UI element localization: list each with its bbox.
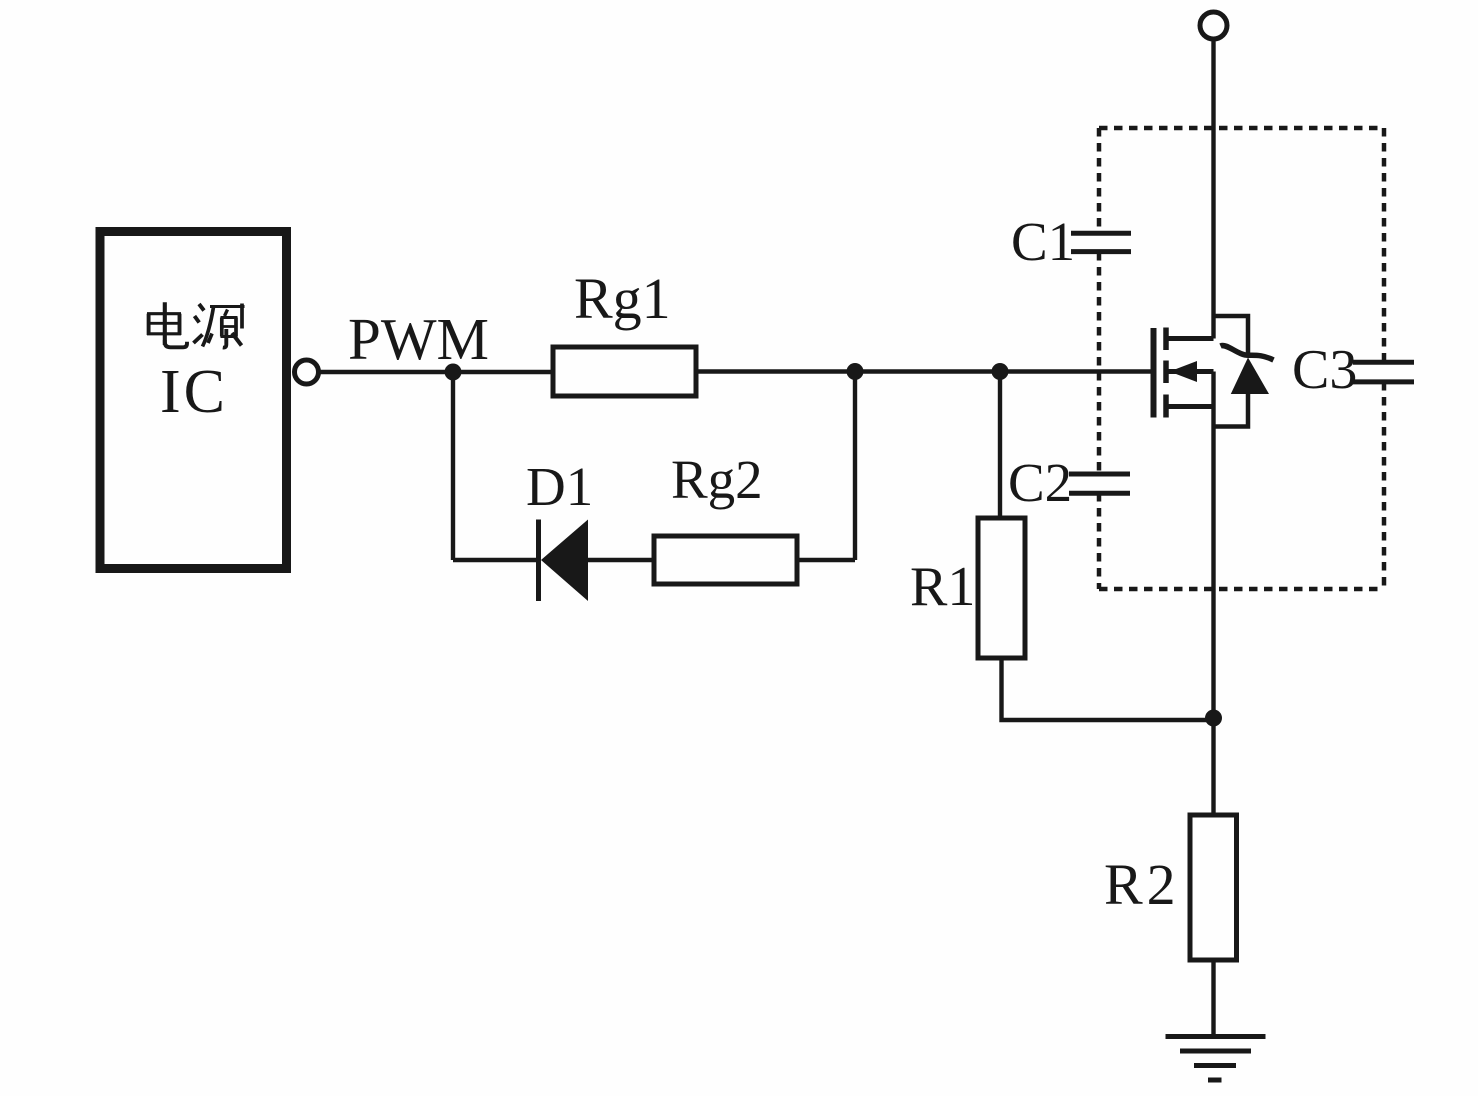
svg-text:IC: IC [160, 358, 228, 426]
svg-text:D1: D1 [526, 456, 593, 517]
power IC box U1 [100, 232, 287, 569]
wire Rg2 to right vertical [797, 558, 855, 562]
wire R2 to ground [1211, 960, 1215, 1037]
transistor Q1 source stub [1166, 404, 1214, 409]
svg-text:C1: C1 [1011, 211, 1075, 272]
wire gate junction down to R1 [998, 372, 1002, 519]
ground [1166, 1037, 1266, 1081]
terminal circle top (drain supply) [1200, 12, 1227, 39]
wire right vertical of lower branch [853, 372, 857, 561]
transistor Q1 body arrow [1170, 361, 1198, 382]
transistor Q1 gate plate [1151, 328, 1157, 418]
label yuan (源) drawn strokes [194, 304, 245, 348]
body diode branch wire bottom [1214, 393, 1249, 427]
body diode branch wire top [1214, 316, 1249, 356]
node junction A [847, 363, 864, 380]
dashed module box [1099, 128, 1384, 589]
capacitor C3 [1353, 362, 1414, 382]
wire lower branch left segment [453, 558, 538, 562]
label dian (电) drawn strokes [147, 302, 187, 347]
svg-text:Rg2: Rg2 [671, 449, 763, 510]
node PWM junction [445, 364, 462, 381]
diode D1 cathode bar [536, 520, 541, 602]
body diode zener bar [1221, 346, 1274, 360]
svg-text:PWM: PWM [348, 306, 489, 372]
wire drain from terminal [1211, 38, 1215, 339]
resistor R1 [978, 518, 1025, 658]
wire source node to R2 [1211, 718, 1215, 815]
resistor R2 [1190, 815, 1237, 960]
wire source vertical [1211, 372, 1215, 719]
capacitor C1 [1071, 233, 1131, 251]
svg-text:C2: C2 [1008, 452, 1072, 513]
wire R1 bottom to source node [1002, 658, 1214, 720]
wire junction A to gate [855, 369, 1151, 373]
diode D1 triangle [541, 520, 588, 602]
transistor Q1 drain stub [1166, 336, 1214, 341]
wire Rg1 to junction [696, 369, 855, 373]
node source junction [1205, 710, 1222, 727]
svg-text:C3: C3 [1292, 339, 1357, 401]
svg-text:Rg1: Rg1 [574, 266, 671, 331]
node gate junction [992, 363, 1009, 380]
svg-text:R2: R2 [1104, 852, 1180, 917]
capacitor C2 [1069, 474, 1130, 493]
transistor Q1 body stub [1166, 369, 1214, 374]
transistor Q1 channel segments [1163, 328, 1169, 418]
svg-text:R1: R1 [910, 556, 975, 618]
resistor Rg2 [654, 536, 797, 584]
terminal circle on IC output [295, 360, 319, 384]
wire D1 to Rg2 [588, 558, 654, 562]
resistor Rg1 [553, 347, 696, 396]
body diode triangle [1231, 358, 1269, 395]
wire PWM junction down [451, 372, 455, 560]
wire PWM output [321, 370, 554, 374]
